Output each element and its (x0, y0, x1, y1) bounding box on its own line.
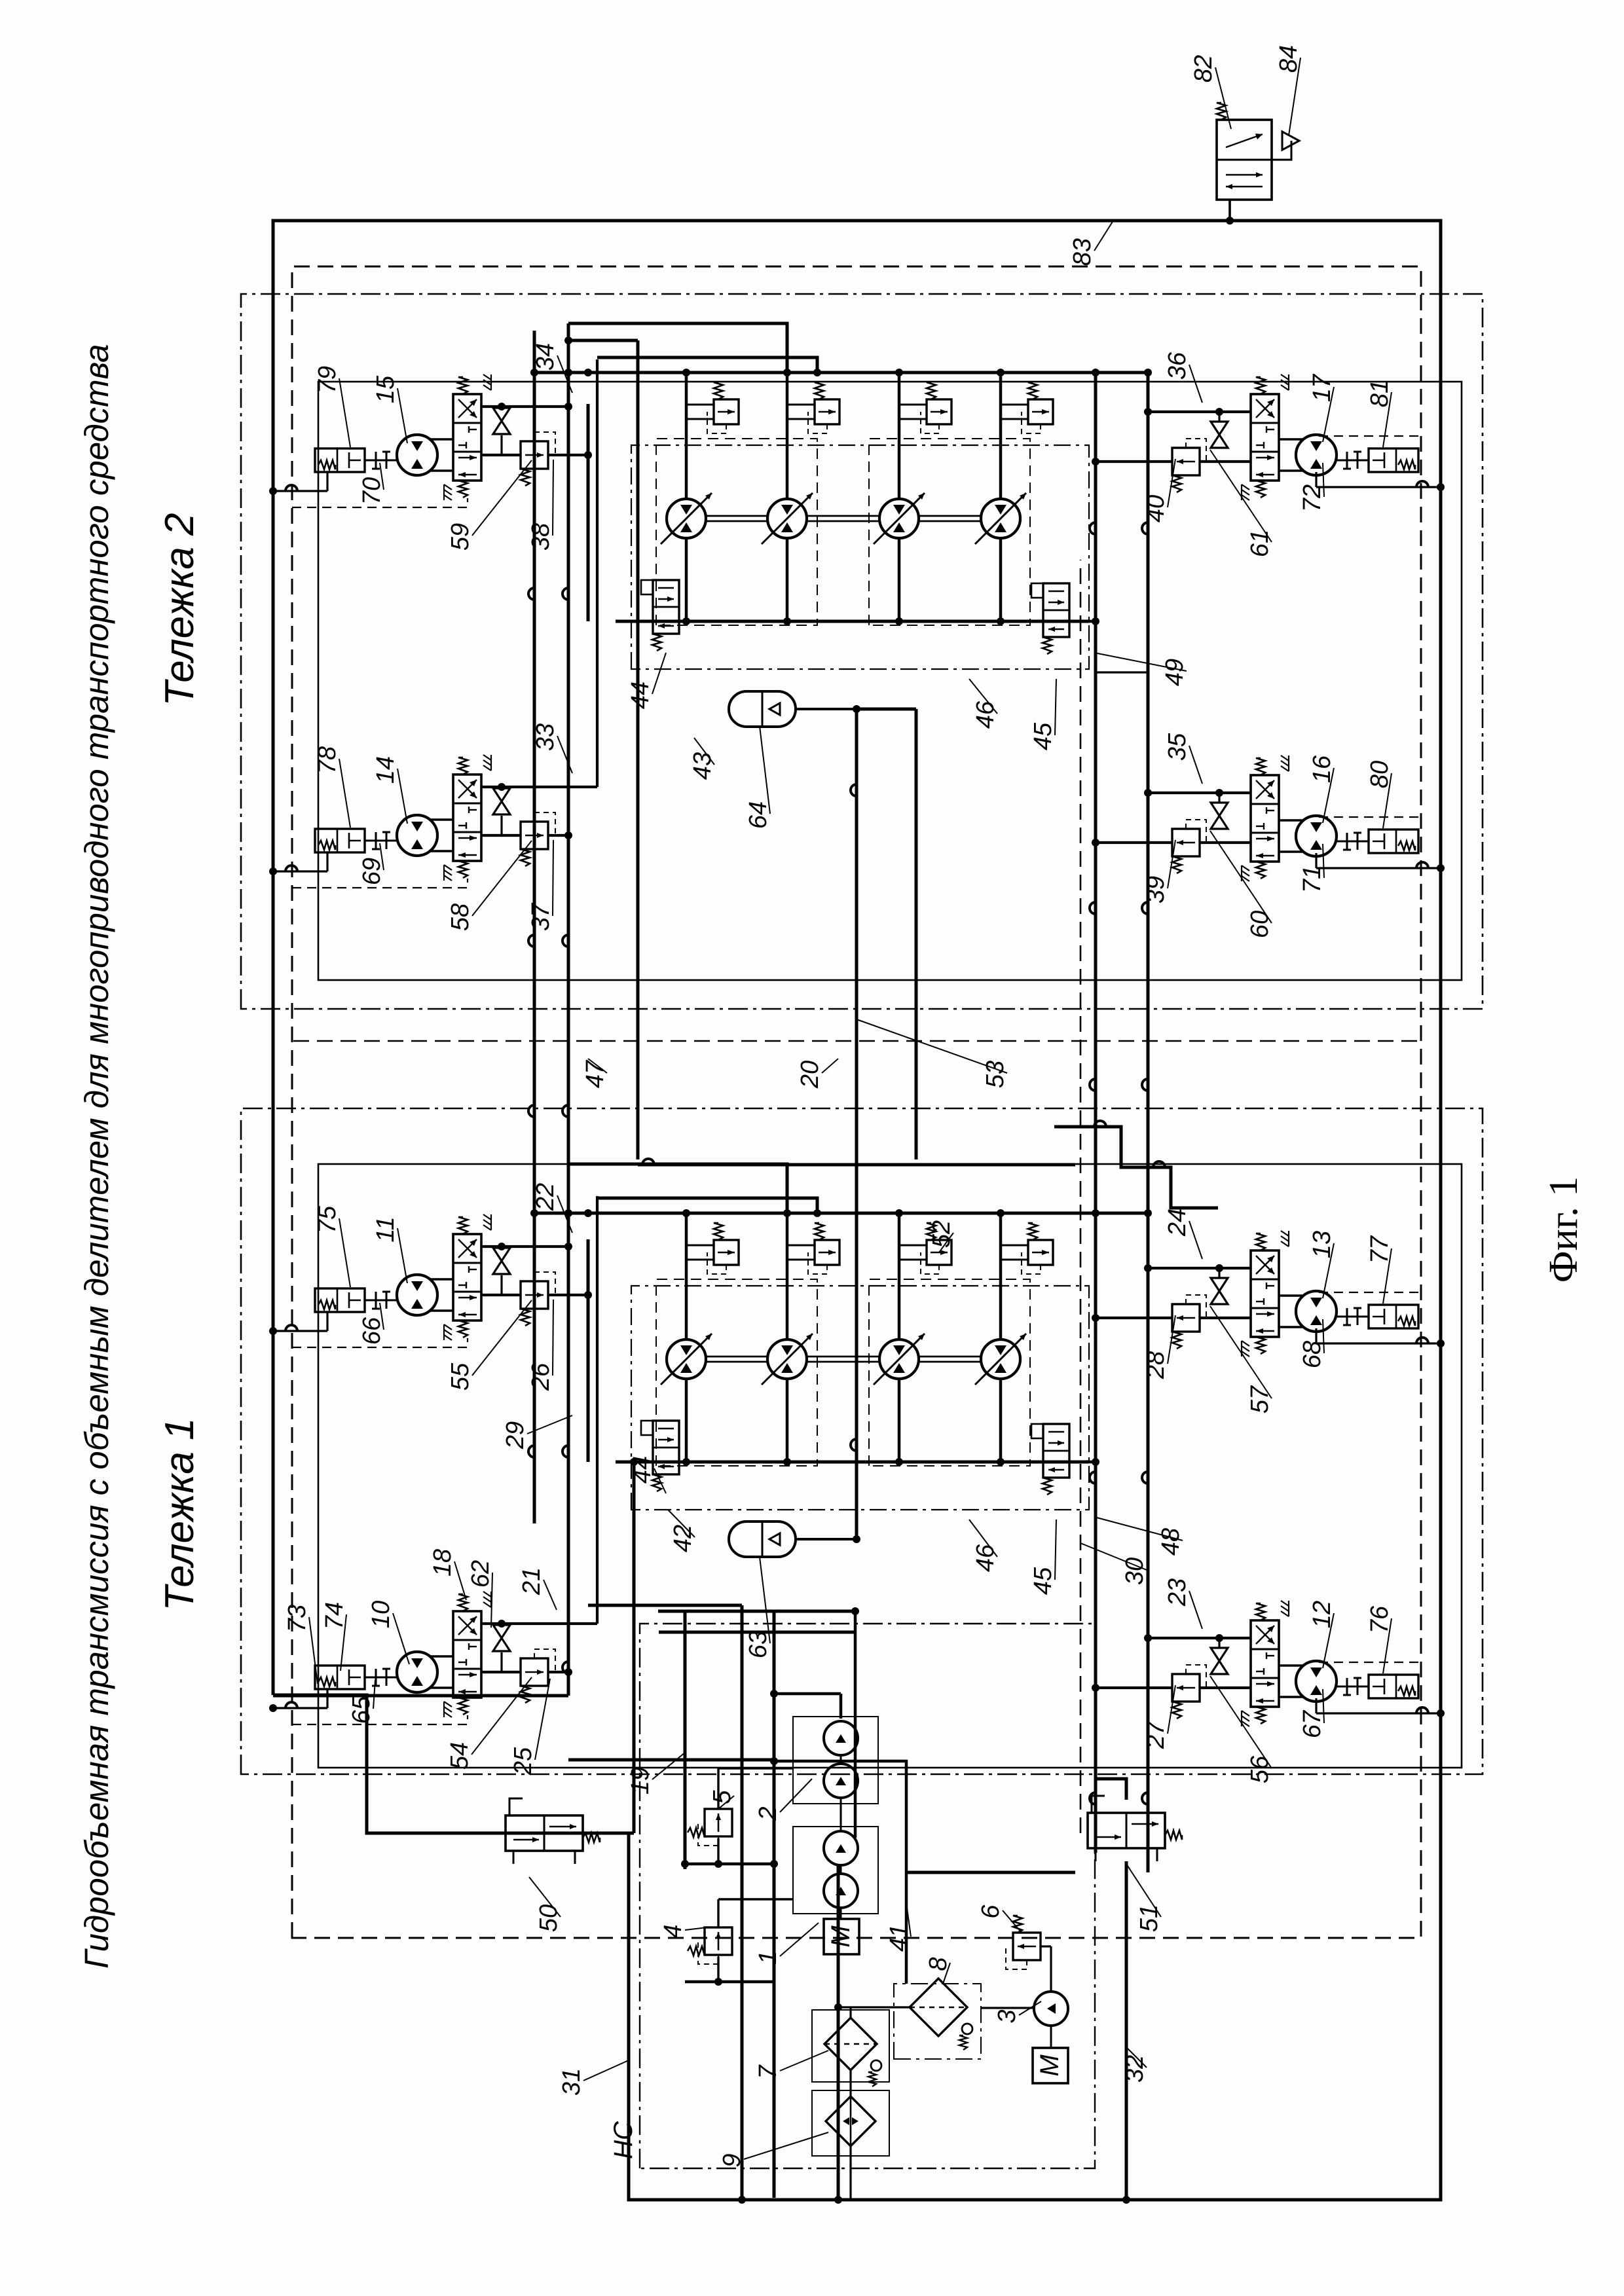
valve 51 (1088, 1813, 1165, 1848)
wire port A 11 (482, 1245, 568, 1248)
hose symbols (528, 1446, 534, 1457)
svg-text:69: 69 (358, 858, 386, 885)
relief brake valve 59 (482, 454, 521, 456)
wire pump T24 low (999, 538, 1003, 621)
relief valve T12 (815, 1240, 840, 1265)
wire 29 upper bus A (533, 331, 536, 1523)
wire port B 79 to bus (548, 454, 588, 456)
variable pump T13 (879, 1339, 919, 1379)
wire motor-valve 16 (1280, 850, 1303, 853)
svg-text:48: 48 (1157, 1528, 1185, 1556)
brake cylinder 78 (315, 829, 365, 852)
wire pump T13 high (898, 1213, 901, 1339)
wire pump T22 low (786, 538, 789, 621)
svg-text:9: 9 (718, 2153, 746, 2167)
wire pump T11 low (685, 1379, 688, 1462)
wire 31 riser (658, 1610, 855, 1613)
wire motor-valve 17 (1280, 469, 1303, 472)
svg-text:64: 64 (745, 801, 772, 829)
svg-text:50: 50 (535, 1904, 563, 1932)
hydraulic motor 14 (397, 815, 437, 856)
wire pump T21 low (685, 538, 688, 621)
hydraulic motor 13 (1296, 1291, 1337, 1332)
wire motor-valve 12 (1280, 1696, 1303, 1698)
variable pump T14 (981, 1339, 1020, 1379)
wire lower bus A (1094, 373, 1098, 1853)
wire pump T13 low (898, 1379, 901, 1462)
svg-text:73: 73 (284, 1605, 311, 1632)
svg-text:10: 10 (367, 1601, 395, 1628)
brake cylinder 73 (315, 1666, 365, 1689)
svg-text:37: 37 (527, 902, 555, 931)
wire feed second riser (659, 1631, 855, 1634)
wire pump T14 high (999, 1213, 1003, 1339)
wire motor-valve 15 (429, 469, 454, 472)
svg-text:65: 65 (348, 1696, 375, 1724)
svg-text:67: 67 (1299, 1709, 1326, 1738)
relief valve T13 (927, 1240, 951, 1265)
svg-text:46: 46 (972, 701, 999, 729)
wire port B 80 to bus (1096, 841, 1172, 844)
wire 30-48 staircase (1054, 1127, 1218, 1208)
wire relief 4 (717, 1957, 719, 1982)
frame dashed pump pair 2 T1 (869, 1279, 1030, 1466)
gear coupling 66 (365, 1300, 397, 1302)
svg-text:1: 1 (754, 1950, 782, 1964)
relief brake valve 55 (482, 1294, 521, 1296)
svg-text:55: 55 (447, 1362, 474, 1391)
svg-text:20: 20 (796, 1061, 824, 1089)
wire pump T24 high (999, 373, 1003, 499)
variable pump T22 (767, 499, 807, 538)
wire divider low bus T2 (616, 620, 1089, 623)
shutoff valve 10 (493, 1638, 510, 1651)
svg-text:79: 79 (314, 366, 341, 393)
wire feed supply horizontal (684, 1611, 687, 1869)
wire divider hi bus to lower pair T2 (1087, 371, 1148, 374)
wire pump T21 high (685, 373, 688, 499)
svg-text:35: 35 (1164, 733, 1191, 761)
valve 45 T1 (1043, 1424, 1069, 1478)
svg-text:28: 28 (1142, 1351, 1170, 1379)
pilot dashed line 81 (1319, 435, 1421, 437)
wire motor-valve 10 (429, 1686, 454, 1689)
relief brake valve 60 (1172, 829, 1200, 856)
directional valve of motor 15 (453, 394, 481, 481)
wire brake supply 73 (273, 1707, 327, 1709)
svg-text:45: 45 (1029, 722, 1057, 750)
variable pump T23 (879, 499, 919, 538)
svg-text:26: 26 (527, 1362, 555, 1391)
wire brake supply 77 (1316, 1342, 1441, 1344)
brake cylinder 77 (1369, 1305, 1418, 1328)
brake cylinder 81 (1369, 448, 1418, 472)
frame dash-dot vehicle bogie 1 (241, 1108, 1483, 1774)
svg-text:19: 19 (627, 1767, 654, 1795)
accumulator 64 (729, 691, 796, 727)
shutoff valve 14 (493, 801, 510, 814)
svg-text:НС: НС (609, 2121, 638, 2159)
svg-text:М: М (826, 1925, 855, 1948)
relief valve T14 (1028, 1240, 1053, 1265)
wire port B 73 to bus (548, 1671, 568, 1673)
hydraulic motor 17 (1296, 435, 1337, 475)
relief valve 4 (705, 1927, 732, 1955)
directional valve of motor 16 (1251, 775, 1279, 862)
pilot dashed line 77 (1319, 1292, 1421, 1293)
valve 44 T2 (653, 580, 679, 634)
wire divider hi bus to lower pair T1 (1087, 1212, 1148, 1215)
svg-text:32: 32 (1121, 2055, 1149, 2083)
filter 7 (812, 2010, 889, 2082)
directional valve of motor 13 (1251, 1250, 1279, 1337)
svg-text:21: 21 (518, 1567, 545, 1595)
cooler 9 (812, 2090, 889, 2156)
svg-text:62: 62 (467, 1560, 494, 1588)
shaft line T1 (706, 1361, 767, 1363)
pump 3 (1034, 1992, 1068, 2026)
svg-text:33: 33 (532, 723, 559, 751)
wire 41 (774, 1761, 906, 1984)
shutoff valve 17 (1211, 435, 1228, 448)
gear coupling 65 (365, 1677, 397, 1679)
relief brake valve 56 (1172, 1674, 1200, 1702)
wire feed line y1280 return (837, 1864, 840, 2198)
svg-text:31: 31 (558, 2068, 585, 2096)
accumulator 63 (729, 1522, 796, 1557)
wire brake supply 81 (1316, 486, 1441, 488)
shutoff valve 16 (1211, 816, 1228, 829)
svg-text:23: 23 (1164, 1578, 1191, 1607)
svg-text:66: 66 (358, 1317, 386, 1345)
relief valve 5 (705, 1809, 732, 1836)
gear coupling 72 (1336, 460, 1369, 462)
wire valve51 link (1125, 1861, 1128, 2200)
frame dash-dot vehicle bogie 2 (241, 294, 1483, 1009)
svg-text:82: 82 (1190, 55, 1217, 82)
wire relief 5 (717, 1838, 719, 1864)
wire pump inlet riser (854, 1611, 857, 1838)
shaft line T2 (706, 520, 767, 522)
frame bogie 2 solid (318, 382, 1462, 980)
frame dashed pilot network (292, 266, 1421, 1938)
wire port A 10 (482, 1622, 597, 1625)
shutoff valve 11 (493, 1261, 510, 1274)
variable pump T24 (981, 499, 1020, 538)
wire bogie1 link (906, 1871, 1075, 1874)
wire pump T23 high (898, 373, 901, 499)
wire pump T14 low (999, 1379, 1003, 1462)
wire pump T11 high (685, 1213, 688, 1339)
wire pump 3 to valve 6 (1050, 1946, 1052, 1992)
shaft feed pumps (840, 1865, 842, 1874)
wire brake supply 78 (273, 870, 327, 872)
wire 34 wrap T2 (568, 323, 787, 371)
wire brake supply 75 (273, 1330, 327, 1332)
svg-text:24: 24 (1164, 1209, 1191, 1237)
shutoff valve 12 (1211, 1661, 1228, 1674)
frame around feed pump pair 1 (793, 1717, 878, 1804)
svg-text:39: 39 (1142, 876, 1170, 903)
wire divider high bus T1 (534, 1212, 1087, 1215)
svg-text:Фиг. 1: Фиг. 1 (1541, 1176, 1586, 1283)
frame dashed pump pair 2 T2 (869, 439, 1030, 625)
pilot dashed line 78 (292, 879, 468, 888)
pilot dashed line 80 (1319, 816, 1421, 818)
wire brake supply 76 (1316, 1712, 1441, 1714)
feed pump group 1 (824, 1764, 858, 1798)
svg-text:Гидрообъемная трансмиссия с об: Гидрообъемная трансмиссия с объемным дел… (78, 344, 115, 1969)
svg-text:58: 58 (447, 903, 474, 931)
relief valve T23 (927, 399, 951, 424)
svg-text:2: 2 (754, 1806, 782, 1821)
wire feed line y1133 (741, 1605, 744, 2200)
pilot dashed line 76 (1319, 1662, 1421, 1663)
relief valve T11 (714, 1240, 739, 1265)
gear coupling 69 (365, 840, 397, 842)
wire port B 77 to bus (1096, 1317, 1172, 1319)
pilot dashed line 73 (292, 1715, 468, 1724)
wire brake supply 79 (273, 490, 327, 492)
svg-text:15: 15 (372, 375, 399, 403)
svg-text:36: 36 (1164, 352, 1191, 380)
brake cylinder 80 (1369, 829, 1418, 853)
feed pump group 2 (824, 1874, 858, 1908)
svg-text:75: 75 (314, 1205, 341, 1233)
svg-text:61: 61 (1246, 530, 1274, 557)
hydraulic motor 15 (397, 435, 437, 475)
svg-text:27: 27 (1142, 1720, 1170, 1749)
variable pump T21 (667, 499, 706, 538)
directional valve of motor 11 (453, 1234, 481, 1321)
svg-text:38: 38 (527, 523, 555, 551)
wire feed supply (685, 1863, 774, 1866)
svg-text:71: 71 (1299, 866, 1326, 893)
svg-text:18: 18 (429, 1549, 456, 1576)
svg-text:60: 60 (1246, 911, 1274, 938)
valve 50 (506, 1815, 583, 1851)
wire port B 76 to bus (1096, 1686, 1172, 1689)
relief brake valve 54 (482, 1671, 521, 1673)
wire divider low bus T1 (616, 1461, 1089, 1464)
svg-text:56: 56 (1246, 1755, 1274, 1783)
wire port A 14 (482, 786, 597, 788)
wire port B 75 to bus (548, 1294, 588, 1296)
svg-text:34: 34 (532, 343, 559, 371)
svg-text:7: 7 (754, 2064, 782, 2079)
wire port B 81 to bus (1096, 460, 1172, 463)
wire divider high bus T2 (534, 371, 1087, 374)
frame dash-dot divider block T2 (631, 445, 1089, 669)
variable pump T12 (767, 1339, 807, 1379)
frame around feed pump pair 2 (793, 1827, 878, 1914)
wire upper bus C segment T1 (587, 1239, 590, 1462)
wire 21 wrap T1 (597, 1198, 817, 1213)
wire pump T23 low (898, 538, 901, 621)
wire valve50 link to block T1 (581, 1832, 634, 1835)
svg-text:54: 54 (446, 1742, 473, 1770)
svg-text:11: 11 (372, 1216, 399, 1242)
svg-text:52: 52 (928, 1220, 955, 1248)
wire feed line y1182 (773, 1611, 776, 2198)
gear coupling 68 (1336, 1316, 1369, 1318)
hydraulic motor 11 (397, 1275, 437, 1315)
valve 82 (1217, 120, 1272, 200)
svg-text:44: 44 (629, 1456, 656, 1484)
svg-text:6: 6 (977, 1904, 1005, 1919)
frame dash-dot pump station HC (640, 1624, 1095, 2168)
brake cylinder 75 (315, 1288, 365, 1312)
svg-text:63: 63 (745, 1631, 772, 1658)
filter 8 (894, 1984, 981, 2059)
wire pump T12 high (786, 1213, 789, 1339)
svg-text:68: 68 (1299, 1341, 1326, 1368)
wire motor-valve 11 (429, 1309, 454, 1312)
valve 45 T2 (1043, 583, 1069, 637)
svg-text:78: 78 (314, 746, 341, 774)
frame 83 outer solid (273, 221, 1441, 2200)
pilot dashed line 75 (292, 1338, 468, 1347)
variable pump T11 (667, 1339, 706, 1379)
svg-text:45: 45 (1029, 1567, 1057, 1595)
wire 47 long line (637, 340, 640, 1159)
valve 6 (1013, 1933, 1041, 1960)
wire port A 13 (1148, 1267, 1251, 1269)
dashed pilot inter-bogie line (1080, 560, 1082, 1833)
wire pump T12 low (786, 1379, 789, 1462)
wire lower bus B (1147, 373, 1150, 1872)
hydraulic motor 10 (397, 1652, 437, 1692)
svg-text:83: 83 (1069, 238, 1096, 266)
brake cylinder 76 (1369, 1675, 1418, 1698)
relief brake valve 58 (482, 834, 521, 837)
wire filter 8 (981, 2007, 1034, 2009)
svg-text:74: 74 (321, 1602, 348, 1630)
wire motor-valve 14 (429, 850, 454, 852)
wire 53 long line (915, 709, 918, 1159)
svg-text:4: 4 (659, 1924, 687, 1938)
wire valve 82 to frame (1228, 200, 1231, 221)
svg-text:72: 72 (1299, 484, 1326, 512)
hydraulic motor 12 (1296, 1661, 1337, 1702)
wire upper bus B (567, 323, 570, 1696)
wire link blocks bottom (1089, 620, 1096, 623)
relief brake valve 57 (1172, 1304, 1200, 1332)
wire port B 78 to bus (548, 834, 568, 837)
svg-text:41: 41 (885, 1924, 913, 1952)
shutoff valve 13 (1211, 1291, 1228, 1304)
directional valve of motor 10 (453, 1611, 481, 1698)
svg-text:29: 29 (502, 1421, 529, 1449)
svg-text:49: 49 (1161, 659, 1189, 686)
wire port A 15 (482, 405, 568, 408)
pilot dashed line 79 (292, 498, 468, 507)
wire port A 12 (1148, 1637, 1251, 1639)
wire 22 wrap T1 (568, 1164, 787, 1211)
svg-text:25: 25 (509, 1747, 537, 1776)
directional valve of motor 14 (453, 774, 481, 861)
svg-text:22: 22 (532, 1183, 559, 1211)
relief valve T24 (1028, 399, 1053, 424)
wire pump T22 high (786, 373, 789, 499)
svg-text:51: 51 (1135, 1904, 1163, 1932)
svg-text:59: 59 (447, 523, 474, 551)
brake cylinder 79 (315, 448, 365, 472)
wire brake supply 80 (1316, 867, 1441, 869)
svg-text:40: 40 (1142, 495, 1170, 522)
directional valve of motor 17 (1251, 394, 1279, 481)
frame bogie 1 solid (318, 1164, 1462, 1768)
svg-text:70: 70 (358, 477, 386, 505)
wire port A 16 (1148, 792, 1251, 794)
frame dashed pump pair 1 T1 (656, 1279, 817, 1466)
wire motor-valve 13 (1280, 1326, 1303, 1328)
gear coupling 71 (1336, 841, 1369, 843)
wire 49 vertical (1096, 671, 1148, 673)
svg-text:46: 46 (972, 1544, 999, 1572)
valve 44 T1 (653, 1421, 679, 1474)
svg-text:14: 14 (372, 756, 399, 784)
gear coupling 67 (1336, 1686, 1369, 1688)
wire port A 17 (1148, 410, 1251, 413)
shutoff valve 15 (493, 421, 510, 434)
svg-text:43: 43 (689, 752, 716, 780)
gear coupling 70 (365, 460, 397, 462)
motor M1 box (824, 1919, 859, 1954)
wire upper bus C segment T2 (587, 404, 590, 621)
svg-text:Тележка 2: Тележка 2 (157, 513, 202, 706)
drain symbol 84 (1272, 141, 1291, 160)
dashed pilot central line (293, 1040, 1421, 1042)
svg-text:44: 44 (627, 682, 654, 709)
relief valve T21 (714, 399, 739, 424)
relief brake valve 61 (1172, 448, 1200, 475)
svg-text:Тележка 1: Тележка 1 (157, 1417, 202, 1611)
wire 33 wrap T2 (597, 357, 817, 373)
svg-text:57: 57 (1246, 1385, 1274, 1413)
svg-text:53: 53 (982, 1061, 1009, 1088)
wire 20 accumulator line (855, 709, 858, 1537)
directional valve of motor 12 (1251, 1620, 1279, 1707)
svg-text:42: 42 (669, 1525, 697, 1552)
hydraulic motor 16 (1296, 816, 1337, 856)
svg-text:М: М (1035, 2054, 1064, 2077)
frame dash-dot divider block T1 (631, 1286, 1089, 1510)
wire feed return (849, 2146, 851, 2200)
relief valve T22 (815, 399, 840, 424)
motor M2 box (1033, 2048, 1068, 2083)
svg-text:3: 3 (993, 2009, 1021, 2023)
frame dashed pump pair 1 T2 (656, 439, 817, 625)
